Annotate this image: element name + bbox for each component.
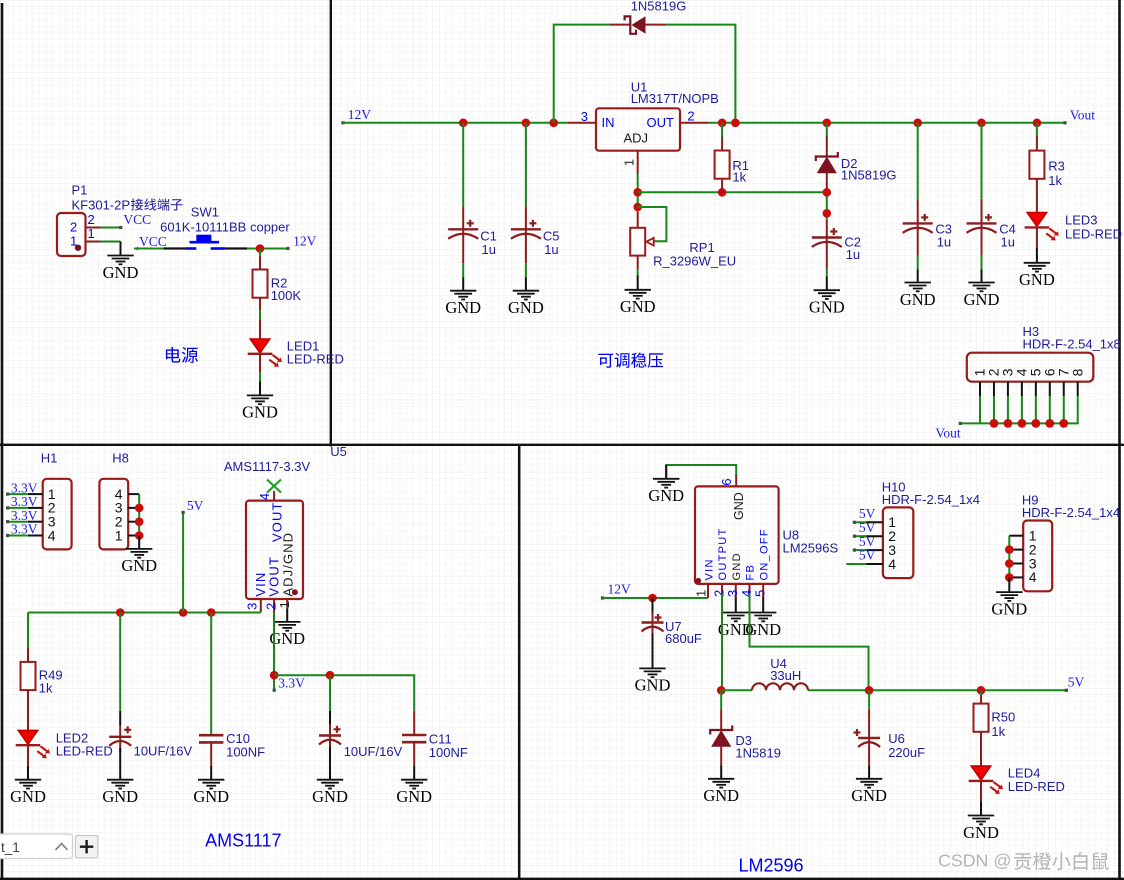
C11 bottom lead bbox=[413, 742, 415, 766]
U7 top lead bbox=[652, 598, 654, 613]
H9 pins bbox=[1009, 536, 1023, 578]
H1 pins bbox=[28, 494, 43, 535]
junction H8 pin 1 bbox=[135, 531, 144, 540]
RP1 bottom lead bbox=[637, 256, 639, 269]
H8 pin numbers bbox=[115, 486, 123, 543]
svg-text:GND: GND bbox=[703, 786, 739, 805]
R49 top lead bbox=[27, 648, 29, 662]
U5 pin 1 bbox=[286, 599, 288, 608]
svg-text:GND: GND bbox=[900, 290, 936, 309]
header H9 labels bbox=[1022, 492, 1120, 520]
C2 top lead bbox=[826, 220, 828, 238]
svg-text:100NF: 100NF bbox=[429, 745, 468, 760]
svg-text:GND: GND bbox=[1019, 270, 1055, 289]
R3 labels bbox=[1048, 158, 1065, 188]
wire loop left vertical bbox=[554, 25, 610, 123]
wire Vout bus H3 bbox=[960, 422, 1078, 424]
svg-text:OUTPUT: OUTPUT bbox=[717, 527, 729, 580]
junction switch node bbox=[717, 686, 726, 695]
junction D2 top bbox=[823, 119, 832, 128]
wire loop right bbox=[666, 25, 735, 123]
wires H3 pins down bbox=[980, 396, 1078, 423]
svg-text:1: 1 bbox=[115, 527, 123, 543]
wire U8 pin2 down bbox=[721, 594, 723, 690]
svg-text:GND: GND bbox=[635, 676, 671, 695]
ground flag at U7 bbox=[635, 655, 671, 695]
rail end tick bbox=[1063, 121, 1066, 124]
wire H8 bus bbox=[138, 494, 140, 535]
LED LED1 bbox=[248, 339, 282, 367]
R1 bottom lead bbox=[721, 179, 723, 193]
junction loop right bbox=[731, 119, 740, 128]
ground flag at C3 bbox=[900, 269, 936, 309]
wire H9 bus bbox=[1008, 536, 1010, 578]
junction RP1 wiper node bbox=[633, 203, 642, 212]
regulator U5 body bbox=[246, 501, 303, 599]
junction C2 top bbox=[823, 209, 832, 218]
resistor R50 bbox=[974, 704, 989, 732]
H3 pin numbers 1-8 bbox=[972, 368, 1086, 376]
wire junction to R2 bbox=[259, 249, 261, 256]
junction H9 pin 2 bbox=[1005, 545, 1014, 554]
capacitor C2 bbox=[812, 228, 842, 253]
wire rail to R3 bbox=[1036, 123, 1038, 137]
C1 labels bbox=[480, 229, 497, 257]
ground flag at C4 bbox=[964, 269, 1000, 309]
wire rail to C1 bbox=[462, 123, 464, 207]
junction H3 pin 2 bbox=[990, 419, 999, 428]
U5 pin 4 bbox=[273, 491, 275, 501]
ground flag at C2 bbox=[809, 277, 845, 317]
svg-text:12V: 12V bbox=[293, 234, 317, 249]
sheet tab UI bbox=[0, 834, 98, 859]
svg-text:5V: 5V bbox=[1068, 674, 1085, 689]
svg-text:IN: IN bbox=[602, 115, 615, 130]
capacitor C11 bbox=[402, 735, 426, 742]
wire rail to D2 bbox=[826, 123, 828, 139]
svg-text:U5: U5 bbox=[330, 444, 347, 459]
svg-text:4: 4 bbox=[48, 527, 56, 543]
R49 bottom lead bbox=[27, 690, 29, 730]
resistor R2 top lead bbox=[259, 256, 261, 270]
U8 pin 2 bbox=[721, 584, 723, 594]
svg-text:5V: 5V bbox=[859, 520, 876, 535]
10UF cap1 bottom lead bbox=[119, 748, 121, 766]
H9 pin numbers bbox=[1029, 528, 1037, 586]
U8 pin 3 bbox=[735, 584, 737, 597]
diode 1N5819G (top) bbox=[625, 16, 646, 34]
H10 pin numbers bbox=[888, 514, 896, 572]
inductor U4 labels bbox=[770, 656, 801, 683]
wire ADJ to R1/D2 bbox=[638, 191, 827, 193]
ground flag at LED4 bbox=[963, 802, 999, 842]
svg-text:ON_OFF: ON_OFF bbox=[758, 528, 770, 580]
C4 labels bbox=[999, 222, 1016, 250]
junction C4 top bbox=[977, 119, 986, 128]
svg-text:LED4: LED4 bbox=[1008, 765, 1041, 780]
junction 3.3V node bbox=[270, 671, 279, 680]
svg-text:AMS1117: AMS1117 bbox=[205, 830, 281, 850]
LED4 bottom lead bbox=[980, 782, 982, 802]
junction 10UF cap bbox=[116, 608, 125, 617]
svg-text:HDR-F-2.54_1x4: HDR-F-2.54_1x4 bbox=[882, 492, 980, 507]
wire FB loop bbox=[750, 594, 869, 690]
svg-text:ADJ: ADJ bbox=[624, 131, 649, 146]
ground flag at C1 bbox=[445, 277, 481, 317]
junction H9 pin 3 bbox=[1005, 559, 1014, 568]
svg-text:GND: GND bbox=[991, 599, 1027, 618]
svg-text:GND: GND bbox=[103, 263, 139, 282]
svg-text:VIN: VIN bbox=[703, 558, 715, 580]
svg-text:H8: H8 bbox=[112, 451, 129, 466]
10UF cap2 top lead bbox=[329, 711, 331, 724]
ground flag at U8 pin5 bbox=[745, 597, 781, 639]
wire rail corner to R49 bbox=[27, 613, 29, 649]
svg-text:680uF: 680uF bbox=[665, 631, 702, 646]
svg-text:12V: 12V bbox=[608, 581, 632, 596]
svg-text:R_3296W_EU: R_3296W_EU bbox=[653, 254, 736, 269]
wire 12V rail bbox=[343, 122, 568, 124]
header H3 body bbox=[967, 353, 1094, 382]
svg-text:1N5819G: 1N5819G bbox=[631, 0, 687, 14]
svg-text:FB: FB bbox=[745, 564, 757, 581]
svg-text:LED-RED: LED-RED bbox=[56, 743, 113, 758]
svg-text:1k: 1k bbox=[39, 681, 53, 696]
svg-text:5V: 5V bbox=[859, 534, 876, 549]
junction C3 top bbox=[913, 119, 922, 128]
component P1 labels bbox=[72, 183, 131, 213]
5V wire tick bbox=[182, 511, 185, 514]
svg-text:GND: GND bbox=[102, 787, 138, 806]
U7 bottom lead bbox=[652, 634, 654, 655]
junction H8 pin 2 bbox=[135, 517, 144, 526]
C1 top lead bbox=[462, 207, 464, 230]
sheet border right bbox=[1118, 0, 1121, 880]
wire VOUT down bbox=[273, 613, 275, 691]
junction R50 top bbox=[977, 686, 986, 695]
C10 bottom lead bbox=[210, 742, 212, 766]
junction H3 pin 5 bbox=[1031, 419, 1040, 428]
svg-text:GND: GND bbox=[648, 486, 684, 505]
capacitor C3 bbox=[903, 214, 933, 239]
wire rail to U6 bbox=[868, 690, 870, 709]
R1 labels bbox=[732, 158, 749, 184]
wire rail to R50 bbox=[980, 690, 982, 704]
junction at R2 top bbox=[256, 244, 265, 253]
ground flag at LED3 bbox=[1019, 248, 1055, 289]
U8 pin 5 bbox=[762, 584, 764, 597]
C3 labels bbox=[935, 222, 952, 250]
P1 label CJK 接线端子 bbox=[131, 198, 183, 210]
svg-text:GND: GND bbox=[809, 298, 845, 317]
svg-text:LM2596: LM2596 bbox=[739, 856, 804, 876]
diode D2 1N5819G bbox=[816, 152, 838, 173]
wire C3 to GND bbox=[917, 256, 919, 270]
diode D3 1N5819 bbox=[710, 726, 732, 747]
wire to 10UF cap1 bbox=[119, 613, 121, 711]
svg-text:HDR-F-2.54_1x8: HDR-F-2.54_1x8 bbox=[1023, 337, 1121, 352]
LED LED4 bbox=[969, 766, 1003, 794]
junction C10 bbox=[207, 608, 216, 617]
D3 top lead bbox=[720, 709, 722, 730]
P1 inside pad numbers bbox=[70, 220, 77, 249]
regulator U1 labels bbox=[631, 80, 719, 107]
U8 pin-1 marker dot bbox=[696, 578, 702, 584]
wire 5V down bbox=[182, 512, 184, 612]
U1 pin names bbox=[602, 115, 675, 146]
regulator U8 labels bbox=[783, 528, 839, 556]
wire rail to C5 bbox=[525, 123, 527, 207]
LED3 labels bbox=[1065, 212, 1122, 241]
svg-text:1k: 1k bbox=[991, 724, 1005, 739]
junction 5V feed bbox=[179, 608, 188, 617]
svg-text:AMS1117-3.3V: AMS1117-3.3V bbox=[224, 459, 311, 474]
wire 3.3V rail bbox=[274, 675, 414, 711]
ground flag at LED1 bbox=[242, 381, 278, 422]
wire R2 to LED1 bbox=[259, 310, 261, 319]
svg-text:GND: GND bbox=[732, 492, 746, 520]
ground flag at H9 bbox=[991, 577, 1027, 618]
sheet border left bbox=[1, 3, 4, 880]
no-connect flag U5 pin4 bbox=[267, 480, 281, 493]
R50 bottom lead bbox=[980, 732, 982, 766]
net label leader arrow bbox=[134, 247, 139, 251]
LED3 bottom lead bbox=[1036, 228, 1038, 248]
junction top loop left bbox=[549, 119, 558, 128]
svg-text:1u: 1u bbox=[846, 247, 860, 262]
svg-text:H1: H1 bbox=[41, 451, 58, 466]
C2 bottom lead bbox=[826, 253, 828, 269]
D3 bottom lead bbox=[720, 746, 722, 765]
svg-text:3.3V: 3.3V bbox=[11, 480, 38, 495]
C5 labels bbox=[543, 229, 560, 257]
svg-text:3: 3 bbox=[725, 590, 740, 597]
svg-text:1: 1 bbox=[277, 601, 292, 608]
wire U8 pin6 up bbox=[666, 465, 736, 478]
junction H9 pin 4 bbox=[1005, 573, 1014, 582]
svg-text:GND: GND bbox=[121, 556, 157, 575]
capacitor 10UF/16V (2) bbox=[319, 726, 341, 751]
svg-text:VOUT: VOUT bbox=[267, 556, 282, 597]
CSDN watermark CJK bbox=[1014, 852, 1109, 870]
svg-text:LED3: LED3 bbox=[1065, 212, 1098, 227]
svg-text:Vout: Vout bbox=[935, 426, 961, 441]
capacitor U6 bbox=[854, 729, 881, 750]
junction D2/ADJ wire bbox=[823, 188, 832, 197]
svg-text:4: 4 bbox=[888, 556, 896, 572]
svg-text:P1: P1 bbox=[72, 183, 88, 198]
svg-text:GND: GND bbox=[620, 297, 656, 316]
D2 top lead bbox=[826, 136, 828, 156]
svg-text:SW1: SW1 bbox=[191, 205, 219, 220]
ground flag at P1 bbox=[103, 242, 139, 282]
H8 pins bbox=[128, 494, 139, 535]
C5 top lead bbox=[525, 207, 527, 230]
header H3 labels bbox=[1023, 324, 1121, 352]
svg-text:GND: GND bbox=[10, 787, 46, 806]
resistor R1 top lead bbox=[721, 136, 723, 151]
U5 pin-1 marker dot bbox=[292, 589, 298, 595]
R3 bottom lead bbox=[1036, 179, 1038, 213]
capacitor U7 bbox=[642, 614, 664, 635]
svg-text:12V: 12V bbox=[348, 107, 372, 122]
P1 pin-1 polarity dot bbox=[75, 245, 81, 251]
U8 pin 1 bbox=[707, 584, 709, 598]
C3 top lead bbox=[917, 199, 919, 224]
header H10 labels bbox=[882, 479, 980, 507]
3.3V stub tick bbox=[273, 689, 276, 692]
U6 bottom lead bbox=[868, 749, 870, 765]
svg-text:1: 1 bbox=[622, 159, 637, 166]
connector P1 body bbox=[57, 213, 86, 256]
C3 bottom lead bbox=[917, 239, 919, 256]
H3 pins bbox=[980, 382, 1078, 397]
wire OUT to rail bbox=[709, 122, 1065, 124]
C2 labels bbox=[844, 234, 861, 262]
svg-text:t_1: t_1 bbox=[1, 840, 20, 855]
switch SW1 labels bbox=[160, 205, 290, 235]
C10 labels bbox=[226, 731, 265, 760]
wire node to inductor bbox=[721, 689, 752, 691]
diode D? anode lead bbox=[609, 24, 631, 26]
svg-text:VCC: VCC bbox=[123, 212, 151, 227]
C1 bottom lead bbox=[462, 245, 464, 263]
svg-text:ADJ/GND: ADJ/GND bbox=[280, 532, 295, 597]
junction U6 top bbox=[865, 686, 874, 695]
junction 10UF cap 2 bbox=[326, 671, 335, 680]
svg-text:GND: GND bbox=[963, 823, 999, 842]
wire rail to C3 bbox=[917, 123, 919, 199]
R2 labels bbox=[271, 275, 302, 303]
junction C1 bbox=[459, 119, 468, 128]
ground flag at H8 bbox=[121, 536, 157, 576]
D2 bottom lead bbox=[826, 173, 828, 190]
D3 labels bbox=[735, 733, 781, 761]
svg-text:GND: GND bbox=[964, 290, 1000, 309]
section divider vertical top bbox=[330, 0, 332, 447]
U5 pin 2 bbox=[273, 599, 275, 613]
junction H3 pin 3 bbox=[1004, 419, 1013, 428]
op-amp U1 body bbox=[596, 108, 680, 150]
title 可调稳压 bbox=[598, 353, 663, 368]
LED1 bottom lead bbox=[259, 354, 261, 372]
svg-text:3.3V: 3.3V bbox=[11, 494, 38, 509]
C11 top lead bbox=[413, 711, 415, 735]
svg-text:4: 4 bbox=[257, 493, 272, 500]
svg-text:6: 6 bbox=[719, 478, 734, 485]
svg-text:VCC: VCC bbox=[139, 234, 167, 249]
wire end tick 12V bbox=[286, 247, 289, 250]
svg-text:2: 2 bbox=[70, 220, 77, 235]
svg-text:3.3V: 3.3V bbox=[11, 522, 38, 537]
ground flag at U5 pin1 bbox=[269, 608, 305, 648]
C5 bottom lead bbox=[525, 245, 527, 263]
P1 pin 1 bbox=[86, 241, 101, 243]
RP1 labels bbox=[653, 240, 736, 269]
junction ADJ node bbox=[633, 188, 642, 197]
svg-text:Vout: Vout bbox=[1070, 108, 1096, 123]
capacitor 10UF/16V (1) bbox=[109, 726, 131, 752]
svg-text:8: 8 bbox=[1069, 368, 1085, 376]
resistor R2 bbox=[253, 270, 268, 298]
svg-text:5V: 5V bbox=[187, 498, 204, 513]
ground flag at C11 bbox=[396, 766, 432, 806]
ground flag at U8 pin6 bbox=[648, 465, 684, 505]
svg-text:GND: GND bbox=[508, 298, 544, 317]
wire SW1 to 12V node bbox=[247, 248, 288, 250]
U1 OUT pin bbox=[680, 122, 709, 124]
wire RP1 wiper loop bbox=[638, 207, 667, 241]
net labels 3.3V at H1 bbox=[11, 480, 38, 536]
wire C2 to GND bbox=[826, 269, 828, 277]
C4 top lead bbox=[981, 199, 983, 224]
section divider horizontal bbox=[0, 444, 1124, 446]
svg-text:GND: GND bbox=[445, 298, 481, 317]
U7 labels bbox=[665, 619, 702, 646]
U8 pin 4 bbox=[749, 584, 751, 594]
D2 labels bbox=[841, 156, 897, 183]
svg-text:R50: R50 bbox=[991, 709, 1015, 724]
svg-text:100K: 100K bbox=[271, 288, 302, 303]
svg-text:HDR-F-2.54_1x4: HDR-F-2.54_1x4 bbox=[1022, 505, 1120, 520]
svg-text:220uF: 220uF bbox=[888, 745, 925, 760]
junction H3 pin 4 bbox=[1017, 419, 1026, 428]
wire ADJ down bbox=[637, 174, 639, 212]
svg-text:U6: U6 bbox=[888, 731, 905, 746]
svg-text:GND: GND bbox=[396, 787, 432, 806]
capacitor C1 bbox=[448, 220, 478, 245]
potentiometer RP1 bbox=[630, 228, 654, 256]
wire P1.1 to GND bbox=[101, 241, 121, 243]
svg-text:1u: 1u bbox=[544, 242, 558, 257]
C11 labels bbox=[429, 731, 468, 760]
10UF cap2 bottom lead bbox=[329, 747, 331, 766]
U6 labels bbox=[888, 731, 925, 760]
U6 top lead bbox=[868, 709, 870, 738]
R2 bottom lead bbox=[259, 298, 261, 311]
wire LED1 to GND bbox=[259, 372, 261, 381]
svg-text:OUT: OUT bbox=[647, 115, 675, 130]
wire to 10UF cap2 bbox=[329, 675, 331, 711]
ground flag at 10UF cap1 bbox=[102, 766, 138, 806]
junction H3 pin 6 bbox=[1045, 419, 1054, 428]
ground flag at U6 bbox=[851, 765, 887, 805]
junction R1 bottom bbox=[718, 188, 727, 197]
svg-text:R3: R3 bbox=[1048, 158, 1065, 173]
svg-text:1: 1 bbox=[693, 590, 708, 597]
svg-text:1k: 1k bbox=[732, 169, 746, 184]
H1 pin numbers bbox=[48, 486, 56, 543]
U8 pin names (bottom) bbox=[703, 527, 770, 580]
svg-text:1u: 1u bbox=[937, 234, 951, 249]
svg-text:2: 2 bbox=[88, 212, 95, 227]
regulator U8 body bbox=[695, 486, 779, 584]
resistor R49 bbox=[21, 662, 36, 690]
sheet border bottom bbox=[0, 878, 1124, 880]
svg-text:KF301-2P: KF301-2P bbox=[72, 198, 131, 213]
P1 pin 2 bbox=[86, 227, 101, 229]
junction C5 bbox=[522, 119, 531, 128]
svg-text:1u: 1u bbox=[1001, 234, 1015, 249]
junction R1 top bbox=[718, 119, 727, 128]
svg-text:CSDN @: CSDN @ bbox=[938, 851, 1011, 871]
svg-text:5V: 5V bbox=[859, 548, 876, 563]
svg-text:LED-RED: LED-RED bbox=[1008, 779, 1065, 794]
svg-text:LED-RED: LED-RED bbox=[287, 351, 344, 366]
header H8 body bbox=[99, 479, 128, 550]
inductor U4 bbox=[752, 683, 808, 690]
LED1 top lead bbox=[259, 319, 261, 339]
